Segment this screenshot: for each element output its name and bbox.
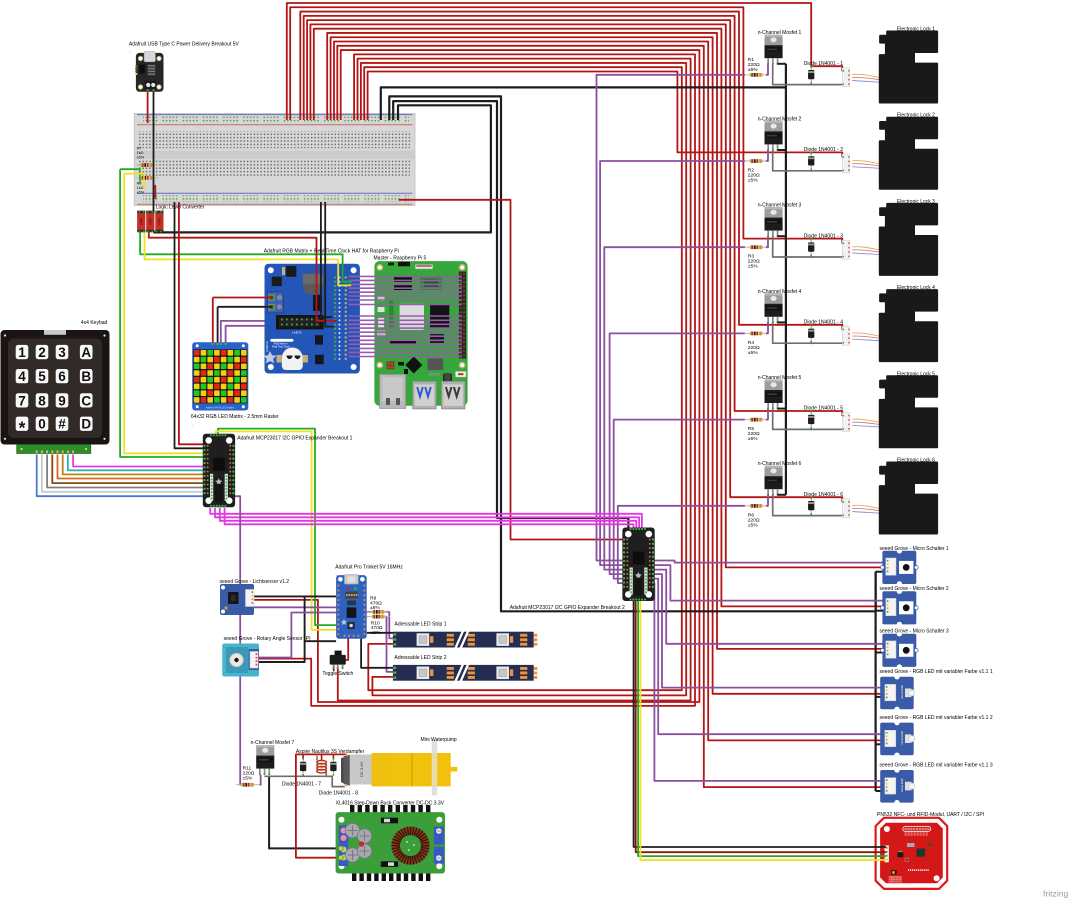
transistor Q2 n-Channel Mosfet 2 xyxy=(765,121,783,151)
svg-text:64x32 RGB LED Matrix - 2.5mm R: 64x32 RGB LED Matrix - 2.5mm Raster xyxy=(191,414,279,420)
wire yellow I2C MCP1 to trinket xyxy=(216,431,336,630)
svg-text:Adafruit USB Type C Power Deli: Adafruit USB Type C Power Delivery Break… xyxy=(129,41,240,47)
wire purple HAT to Pi GPIO 13 xyxy=(349,331,462,333)
svg-text:6: 6 xyxy=(58,369,66,384)
svg-text:1kΩ: 1kΩ xyxy=(137,186,144,190)
diode D2 1N4001 xyxy=(808,153,814,171)
svg-text:Adafruit MCP23017 I2C GPIO Exp: Adafruit MCP23017 I2C GPIO Expander Brea… xyxy=(510,605,625,611)
wire purple HAT to Pi GPIO 6 xyxy=(349,295,462,297)
junction node diode 2 xyxy=(810,151,812,153)
resistor R8 1k on breadboard xyxy=(135,176,158,195)
wire purple MCP2 to Grove switch 3 xyxy=(651,570,885,644)
connector lock 2 xyxy=(842,154,849,173)
wire purple R9 to LED strip 1 DIN xyxy=(386,612,394,639)
ribbon lock 4 xyxy=(852,333,880,341)
svg-text:±5%: ±5% xyxy=(748,522,758,528)
wire +5V to LED strip 1 xyxy=(364,67,682,690)
wire +5V to Grove RGB 1 xyxy=(331,37,885,694)
diode D1 1N4001 xyxy=(808,66,814,84)
svg-text:Adafruit: Adafruit xyxy=(265,341,269,352)
wire purple HAT to Pi GPIO 8 xyxy=(349,304,462,306)
wire black branch to rotary xyxy=(258,596,305,662)
svg-text:n-Channel Mosfet 6: n-Channel Mosfet 6 xyxy=(758,461,802,467)
svg-text:seeed Grove - Micro Schalter 2: seeed Grove - Micro Schalter 2 xyxy=(880,586,949,592)
wire +5V to mosfet 5 circuit xyxy=(304,16,843,416)
svg-text:HUB75: HUB75 xyxy=(292,331,301,335)
svg-text:Diode 1N4001 - 7: Diode 1N4001 - 7 xyxy=(282,781,321,787)
svg-text:n-Channel Mosfet 1: n-Channel Mosfet 1 xyxy=(758,30,802,36)
wire green I2C SDA breadboard to MCP1 xyxy=(120,168,140,170)
wire dark red MCP2 to PN532 xyxy=(636,600,885,852)
LED strip 1 xyxy=(393,630,537,649)
svg-text:seeed Grove - Rotary Angle Sen: seeed Grove - Rotary Angle Sensor (P) xyxy=(224,636,311,642)
wire purple HAT to Pi GPIO 3 xyxy=(349,283,462,285)
mini waterpump xyxy=(350,740,458,796)
wire +5V to Grove switch 3 xyxy=(327,33,885,649)
wire black USB-C to logic level converter xyxy=(153,92,155,212)
svg-text:±5%: ±5% xyxy=(748,178,758,184)
wire keypad pin 1 to MCP1 xyxy=(37,455,205,497)
vape atomizer Aspire Nautilus xyxy=(341,754,350,786)
wire purple MCP2 to Grove switch 1 xyxy=(651,561,885,563)
wire black source stub Q3 xyxy=(777,235,786,237)
wire GND breadboard to grove modules bus xyxy=(389,96,875,611)
svg-text:5: 5 xyxy=(38,369,46,384)
svg-text:fritzing: fritzing xyxy=(1043,889,1069,899)
power board U-USB Adafruit USB Type C PD Breakout xyxy=(135,52,163,92)
svg-text:7: 7 xyxy=(18,393,26,408)
wire red trinket BAT to toggle switch xyxy=(344,634,348,665)
wire red toggle stub xyxy=(333,665,335,671)
diode D5 1N4001 xyxy=(808,411,814,429)
svg-text:Real Time Clock: Real Time Clock xyxy=(272,345,290,348)
wire black trinket to LED strip 2 GND xyxy=(361,634,393,668)
transistor Q6 n-Channel Mosfet 6 xyxy=(765,466,783,496)
resistor R10 470 xyxy=(367,615,390,619)
diode D7 1N4001 xyxy=(300,758,306,776)
wire +5V to Grove RGB 2 xyxy=(334,42,885,741)
wire red breadboard to 64x32 matrix xyxy=(212,298,214,345)
wire gray drain Q2 to lock connector xyxy=(773,150,843,171)
junction node diode 5 xyxy=(810,410,812,412)
svg-text:.: . xyxy=(336,572,337,577)
wire purple HAT to Pi GPIO 16 xyxy=(349,343,462,345)
wire red rail stub coil xyxy=(321,754,323,760)
wire +5V to mosfet 6 circuit xyxy=(307,20,842,502)
junction node diode 3 xyxy=(810,238,812,240)
svg-text:Adafruit MCP23017 I2C GPIO Exp: Adafruit MCP23017 I2C GPIO Expander Brea… xyxy=(237,436,352,442)
wire +5V to Grove switch 1 xyxy=(310,24,885,567)
wire pink MCP1 to MCP2 2 xyxy=(215,508,639,529)
wire black to HAT overlay 1 xyxy=(321,264,333,318)
svg-text:1kΩ: 1kΩ xyxy=(137,151,144,155)
wire +5V to Grove RGB 3 xyxy=(337,46,885,787)
svg-text:Adafruit RGB LED Matrix: Adafruit RGB LED Matrix xyxy=(206,405,236,409)
wire keypad pin 4 to MCP1 xyxy=(52,455,205,484)
svg-text:3: 3 xyxy=(58,345,66,360)
wire purple HAT to matrix 1 xyxy=(221,321,265,344)
svg-text:Diode 1N4001 - 2: Diode 1N4001 - 2 xyxy=(804,147,843,153)
svg-text:Diode 1N4001 - 3: Diode 1N4001 - 3 xyxy=(804,233,843,239)
transistor Q5 n-Channel Mosfet 5 xyxy=(765,379,783,409)
wire green I2C MCP1 to trinket xyxy=(218,429,336,625)
svg-text:Adafruit RGB Matrix + Real Tim: Adafruit RGB Matrix + Real Time Clock HA… xyxy=(264,249,399,255)
connector lock 6 xyxy=(842,499,849,518)
wire red rail stub diode 7 xyxy=(302,754,304,759)
wire keypad pin 7 to MCP1 xyxy=(68,455,205,471)
resistor R5 220 xyxy=(745,418,768,422)
wire purple HAT to Pi GPIO 18 xyxy=(349,351,462,353)
wire black source stub Q4 xyxy=(777,321,786,323)
svg-text:±5%: ±5% xyxy=(137,156,145,160)
keypad 4x4 xyxy=(1,330,110,454)
wire red LLC to RGB HAT power xyxy=(149,231,337,321)
connector lock 3 xyxy=(842,240,849,259)
wire black source stub Q2 xyxy=(777,149,786,151)
electronic lock 2 xyxy=(880,118,937,189)
svg-text:±5%: ±5% xyxy=(370,605,380,611)
IC breakout U2 MCP23017 1 xyxy=(203,434,235,508)
wire black grove GND stub xyxy=(876,610,885,612)
svg-text:±5%: ±5% xyxy=(243,776,253,782)
svg-text:n-Channel Mosfet 4: n-Channel Mosfet 4 xyxy=(758,289,802,295)
wire red jumper breadboard xyxy=(154,186,156,199)
wire keypad pin 5 to MCP1 xyxy=(58,455,206,479)
wire purple HAT to Pi GPIO 10 xyxy=(349,319,462,321)
wire green HAT overlay xyxy=(343,264,352,282)
wire black HAT terminal to matrix xyxy=(217,307,219,344)
wire purple trinket to R9 xyxy=(367,611,372,613)
ribbon lock 1 xyxy=(852,74,880,82)
wire purple MCP2 to Grove RGB 2 xyxy=(651,579,885,735)
wire purple HAT to Pi GPIO 17 xyxy=(349,347,462,349)
electronic lock 3 xyxy=(880,204,937,275)
ribbon lock 2 xyxy=(852,161,880,169)
wire red breadboard to MCP1 xyxy=(179,202,205,444)
wire purple R10 to LED strip 2 DIN xyxy=(386,617,394,672)
svg-text:seeed Grove - RGB LED mit vari: seeed Grove - RGB LED mit variabler Farb… xyxy=(880,762,993,768)
wire purple MCP2 to gate resistor R3 xyxy=(604,247,745,569)
wire keypad pin 6 to MCP1 xyxy=(63,455,205,475)
IC breakout U3 MCP23017 2 xyxy=(622,528,654,602)
svg-text:*: * xyxy=(19,417,26,437)
junction node diode 6 xyxy=(810,496,812,498)
svg-text:XL4016 Step-Down Buck Converte: XL4016 Step-Down Buck Converter DC-DC 3.… xyxy=(336,801,445,807)
wire black mosfet 7 source to buck converter xyxy=(269,776,339,848)
wire purple MCP2 to gate resistor R5 xyxy=(614,420,745,579)
wire purple MCP2 to gate resistor R1 xyxy=(597,75,746,561)
svg-text:8: 8 xyxy=(38,393,46,408)
wire yellow PN532 stub xyxy=(874,859,886,861)
wire keypad pin 3 to MCP1 xyxy=(47,455,205,488)
wire black grove GND stub xyxy=(876,790,885,792)
svg-text:±5%: ±5% xyxy=(371,630,381,636)
svg-text:±5%: ±5% xyxy=(748,264,758,270)
ribbon lock 5 xyxy=(852,419,880,427)
PN532 NFC RFID module xyxy=(876,818,948,889)
wire purple rotary to trinket xyxy=(258,613,336,658)
wire yellow I2C SCL breadboard to MCP1 xyxy=(124,173,144,175)
transistor Q3 n-Channel Mosfet 3 xyxy=(765,207,783,237)
wire gray drain Q6 to lock connector xyxy=(773,495,843,516)
wire purple R11 to mosfet 7 gate xyxy=(260,775,261,785)
wire keypad pin 8 to MCP1 xyxy=(73,455,205,467)
wire black PN532 stub xyxy=(874,846,886,848)
wire purple HAT to Pi GPIO 19 xyxy=(349,356,462,358)
wire GND logic level converter loop xyxy=(154,105,491,232)
wire yellow HAT overlay xyxy=(338,264,351,286)
wire red LLC to HAT overlay xyxy=(317,264,337,321)
wire purple MCP2 to Grove RGB 1 xyxy=(651,574,885,688)
resistor R1 220 xyxy=(745,73,768,77)
svg-text:Adafruit Pro Trinket 5V 16MHz: Adafruit Pro Trinket 5V 16MHz xyxy=(335,564,403,570)
wire purple MCP1 to R11 xyxy=(231,496,241,785)
grove rotary angle sensor xyxy=(222,644,259,677)
wire purple HAT to Pi GPIO 9 xyxy=(349,315,462,317)
svg-text:2: 2 xyxy=(38,345,46,360)
svg-text:DC 3-6V: DC 3-6V xyxy=(359,761,364,777)
junction node diode 1 xyxy=(810,65,812,67)
wire purple gate stub Q6 xyxy=(766,495,768,506)
wire GND grove bus vertical xyxy=(874,572,876,791)
connector lock 5 xyxy=(842,413,849,432)
wire black trinket to LED strip 1 GND xyxy=(367,632,394,634)
wire purple HAT to Pi GPIO 11 xyxy=(349,323,462,325)
resistor R6 220 xyxy=(745,504,768,508)
LED strip 2 xyxy=(393,663,537,682)
wire black breadboard to MCP1 xyxy=(175,202,206,448)
wire purple HAT to Pi GPIO 7 xyxy=(349,299,462,301)
wire black stub HAT terminal xyxy=(265,306,273,308)
wire purple lichtsensor to trinket xyxy=(252,606,336,608)
wire +5V to Grove switch 2 xyxy=(314,29,885,607)
diode D3 1N4001 xyxy=(808,239,814,257)
svg-text:B: B xyxy=(81,369,91,384)
svg-text:seeed Grove - Micro Schalter 3: seeed Grove - Micro Schalter 3 xyxy=(880,629,949,635)
wire black branch to trinket GND xyxy=(305,640,337,642)
svg-text:Electronic Lock 4: Electronic Lock 4 xyxy=(897,285,935,291)
electronic lock 5 xyxy=(880,376,937,447)
svg-text:1: 1 xyxy=(18,345,26,360)
transistor Q4 n-Channel Mosfet 4 xyxy=(765,293,783,323)
resistor R7 1k on breadboard xyxy=(135,147,158,167)
svg-text:Electronic Lock 3: Electronic Lock 3 xyxy=(897,199,935,205)
Raspberry Pi 5 board xyxy=(374,261,467,409)
svg-text:Adressable LED Strip 2: Adressable LED Strip 2 xyxy=(395,655,447,661)
RGB Matrix HAT board xyxy=(263,264,360,374)
wire yellow jumper breadboard xyxy=(143,173,145,188)
svg-text:Toggle Switch: Toggle Switch xyxy=(322,671,353,677)
wire purple HAT to Pi GPIO 2 xyxy=(349,279,462,281)
svg-text:n-Channel Mosfet 7: n-Channel Mosfet 7 xyxy=(251,740,295,746)
Adafruit Pro Trinket xyxy=(336,575,367,639)
junction node diode 4 xyxy=(810,324,812,326)
wire green jumper breadboard xyxy=(139,168,141,183)
wire +5V to mosfet 3 circuit xyxy=(290,7,842,243)
wire +5V to mosfet 1 / diode 1 xyxy=(287,3,843,120)
wire keypad pin 2 to MCP1 xyxy=(42,455,205,492)
electronic lock 1 xyxy=(880,32,937,103)
svg-text:Mini Waterpump: Mini Waterpump xyxy=(421,737,457,743)
svg-text:4: 4 xyxy=(18,369,26,384)
wire black lichtsensor GND bus xyxy=(252,595,336,597)
wire black MCP2 to PN532 xyxy=(634,600,885,847)
coil heating element xyxy=(316,756,327,776)
svg-text:n-Channel Mosfet 3: n-Channel Mosfet 3 xyxy=(758,203,802,209)
wire purple HAT to Pi GPIO 5 xyxy=(349,291,462,293)
grove light sensor xyxy=(220,584,254,615)
wire purple HAT to Pi GPIO 4 xyxy=(349,287,462,289)
wire purple MCP2 to Grove switch 2 xyxy=(651,565,885,601)
svg-text:PN532 NFC- und RFID-Modul, UAR: PN532 NFC- und RFID-Modul, UART / I2C / … xyxy=(877,812,984,818)
wire red USB-C to breadboard + xyxy=(147,92,149,123)
wire red rail stub diode 8 xyxy=(332,754,334,759)
grove micro switch 3 xyxy=(881,631,919,670)
wire gray drain Q4 to lock connector xyxy=(773,323,843,344)
toggle switch S1 xyxy=(330,651,346,669)
wire purple MCP2 to gate resistor R6 xyxy=(618,506,745,583)
svg-text:Adressable LED Strip 1: Adressable LED Strip 1 xyxy=(395,622,447,628)
wire purple gate stub Q2 xyxy=(766,150,768,161)
wire pink MCP1 to MCP2 4 xyxy=(225,508,634,529)
svg-text:Diode 1N4001 - 5: Diode 1N4001 - 5 xyxy=(804,406,843,412)
grove RGB LED 1 xyxy=(880,674,915,712)
connector lock 1 xyxy=(842,68,849,87)
svg-text:R8: R8 xyxy=(137,182,142,186)
wire +5V to toggle switch xyxy=(338,59,691,701)
wire red stub HAT terminal xyxy=(265,297,273,299)
ribbon lock 6 xyxy=(852,505,880,513)
svg-text:seeed Grove - Micro Schalter 1: seeed Grove - Micro Schalter 1 xyxy=(880,546,949,552)
wire gray drain Q1 to lock connector xyxy=(773,64,843,85)
resistor R3 220 xyxy=(745,245,768,249)
breadboard xyxy=(134,113,415,205)
connector lock 4 xyxy=(842,327,849,346)
svg-text:n-Channel Mosfet 2: n-Channel Mosfet 2 xyxy=(758,116,802,122)
wire green MCP2 to PN532 xyxy=(638,600,885,856)
wire purple HAT to matrix 2 xyxy=(226,326,265,344)
wire purple gate stub Q1 xyxy=(766,64,768,75)
resistor R2 220 xyxy=(745,159,768,163)
wire gray drain Q3 to lock connector xyxy=(773,236,843,257)
wire black to HAT overlay 2 xyxy=(325,264,334,327)
wire green PN532 stub xyxy=(874,855,886,857)
svg-text:R7: R7 xyxy=(137,147,142,151)
wire GND breadboard to MCP23017 2 xyxy=(393,101,628,529)
wire purple gate stub Q5 xyxy=(766,409,768,420)
wire GND bus breadboard to mosfet sources xyxy=(381,87,786,494)
grove RGB LED 3 xyxy=(880,767,915,805)
svg-text:Electronic Lock 5: Electronic Lock 5 xyxy=(897,371,935,377)
svg-text:Diode 1N4001 - 4: Diode 1N4001 - 4 xyxy=(804,320,843,326)
wire black breadboard to HAT 2 xyxy=(325,202,334,327)
wire pink MCP1 to MCP2 1 xyxy=(210,508,642,529)
svg-text:A: A xyxy=(81,345,91,360)
wire purple gate stub Q3 xyxy=(766,236,768,247)
svg-text:seeed Grove - Lichtsensor v1.2: seeed Grove - Lichtsensor v1.2 xyxy=(220,579,290,585)
wire green LLC to RGB HAT xyxy=(140,231,352,282)
wire +5V to mosfet 2 circuit xyxy=(368,71,843,157)
wire black source stub Q5 xyxy=(777,408,786,410)
wire purple HAT to Pi GPIO 14 xyxy=(349,335,462,337)
wire GND bus upper segment xyxy=(785,64,787,88)
wire dark red PN532 stub xyxy=(874,851,886,853)
LED matrix 64x32 xyxy=(192,342,248,410)
wire black breadboard to HAT xyxy=(321,202,333,317)
transistor Q1 n-Channel Mosfet 1 xyxy=(765,35,783,65)
svg-text:Logic Level Converter: Logic Level Converter xyxy=(156,205,205,211)
svg-text:9: 9 xyxy=(58,393,66,408)
svg-text:±5%: ±5% xyxy=(748,350,758,356)
wire gray mosfet 7 drain to pump xyxy=(264,776,344,786)
svg-text:±5%: ±5% xyxy=(748,67,758,73)
svg-text:0: 0 xyxy=(38,417,46,432)
grove micro switch 2 xyxy=(881,589,919,628)
wire pink MCP1 to MCP2 3 xyxy=(220,508,637,529)
transistor Q7 n-Channel Mosfet 7 xyxy=(256,745,274,775)
svg-text:Diode 1N4001 - 6: Diode 1N4001 - 6 xyxy=(804,492,843,498)
wire red pump rail to buck converter output xyxy=(296,754,347,857)
resistor R4 220 xyxy=(745,332,768,336)
svg-text:n-Channel Mosfet 5: n-Channel Mosfet 5 xyxy=(758,375,802,381)
svg-text:.: . xyxy=(192,422,193,427)
svg-text:4x4 Keybad: 4x4 Keybad xyxy=(81,320,108,326)
diode D6 1N4001 xyxy=(808,497,814,515)
svg-text:Aspire Nautilus 3S Verdampfer: Aspire Nautilus 3S Verdampfer xyxy=(296,749,365,755)
svg-text:#: # xyxy=(58,417,66,432)
svg-text:seeed Grove - RGB LED mit vari: seeed Grove - RGB LED mit variabler Farb… xyxy=(880,669,993,675)
electronic lock 4 xyxy=(880,290,937,361)
electronic lock 6 xyxy=(880,463,937,534)
wire yellow LLC to RGB HAT xyxy=(145,231,352,285)
svg-text:seeed Grove - RGB LED mit vari: seeed Grove - RGB LED mit variabler Farb… xyxy=(880,715,993,721)
svg-text:C: C xyxy=(81,393,91,408)
wire purple HAT to Pi GPIO 1 xyxy=(349,275,462,277)
buck converter XL4016 xyxy=(336,805,445,881)
svg-text:.: . xyxy=(130,49,131,54)
diode D8 1N4001 xyxy=(330,758,336,776)
wire black grove GND stub xyxy=(876,652,885,654)
svg-text:Diode 1N4001 - 8: Diode 1N4001 - 8 xyxy=(319,790,358,796)
wire black source stub Q6 xyxy=(777,494,786,496)
wire +5V to mosfet 4 circuit xyxy=(300,12,842,330)
wire red breadboard to MCP2 xyxy=(399,200,623,540)
wire +5V to LED strip 2 xyxy=(361,63,686,695)
wire purple HAT to Pi GPIO 12 xyxy=(349,327,462,329)
svg-text:±5%: ±5% xyxy=(748,436,758,442)
ribbon lock 3 xyxy=(852,247,880,255)
grove RGB LED 2 xyxy=(880,720,915,758)
wire purple gate stub Q4 xyxy=(766,322,768,333)
wire black source stub Q1 xyxy=(777,63,786,65)
svg-text:Electronic Lock 6: Electronic Lock 6 xyxy=(897,458,935,464)
svg-text:Master - Raspberry Pi 5: Master - Raspberry Pi 5 xyxy=(374,255,427,261)
svg-text:±5%: ±5% xyxy=(137,191,145,195)
wire purple MCP2 to gate resistor R4 xyxy=(610,333,745,574)
wire black grove GND stub xyxy=(876,743,885,745)
wire gray drain Q5 to lock connector xyxy=(773,409,843,430)
svg-text:Diode 1N4001 - 1: Diode 1N4001 - 1 xyxy=(804,61,843,67)
grove micro switch 1 xyxy=(881,548,919,587)
resistor R11 220 xyxy=(236,783,259,787)
resistor R9 470 xyxy=(367,610,390,614)
wire purple MCP2 to Grove RGB 3 xyxy=(651,583,885,781)
logic level converter xyxy=(137,211,163,233)
wire purple MCP2 to gate resistor R2 xyxy=(600,161,745,565)
svg-text:Electronic Lock 1: Electronic Lock 1 xyxy=(897,27,935,33)
svg-text:D: D xyxy=(81,417,91,432)
diode D4 1N4001 xyxy=(808,325,814,343)
